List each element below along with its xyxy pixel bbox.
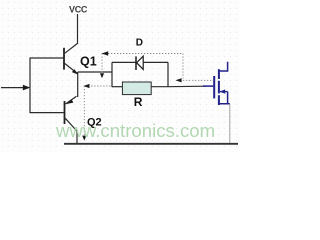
wire VCC supply lead [77, 14, 79, 44]
mosfet gate lead [203, 85, 213, 87]
wire diode branch left [112, 61, 136, 63]
wire resistor branch right [151, 86, 168, 88]
transistor Q1 collector lead [65, 43, 78, 53]
diode D triangle [137, 56, 144, 69]
transistor Q1 emitter lead with arrow [65, 64, 79, 75]
transistor Q2 base bar [64, 101, 66, 124]
dashed annotation gate horizontal with left arrow [175, 78, 213, 82]
wire Q1 base [30, 57, 63, 59]
transistor Q2 emitter lead with arrow [66, 96, 77, 104]
wire gate output [168, 85, 206, 88]
mosfet gate plate [213, 76, 215, 98]
wire resistor branch left [112, 86, 123, 88]
svg-text:VCC: VCC [69, 4, 88, 14]
dashed annotation path A top horizontal with left arrow [102, 51, 183, 55]
mosfet source lead [219, 92, 230, 104]
transistor Q1 base bar [63, 48, 65, 70]
wire input bus vertical [29, 58, 31, 114]
mosfet drain lead [219, 62, 228, 71]
node output vertical (emitters junction) [77, 72, 79, 97]
wire network left vertical [111, 62, 113, 87]
svg-text:D: D [136, 37, 143, 48]
dashed annotation path A right vertical [182, 54, 184, 79]
wire Q2 base [30, 112, 64, 114]
diode D cathode bar [135, 56, 137, 70]
svg-text:Q1: Q1 [80, 54, 97, 68]
svg-text:R: R [134, 95, 143, 109]
wire source down [229, 104, 231, 144]
resistor R body [122, 82, 151, 95]
mosfet body arrow [220, 89, 228, 93]
transistor Q2 collector lead [65, 118, 77, 143]
svg-text:www.cntronics.com: www.cntronics.com [55, 120, 215, 141]
dashed annotation path B horizontal with left arrow [83, 84, 111, 88]
dashed annotation path B vertical with down arrow [82, 86, 86, 141]
wire network right vertical [167, 62, 169, 86]
wire diode branch right [143, 61, 168, 63]
wire input with arrow [1, 85, 30, 91]
dashed annotation path A vertical with down arrow [100, 54, 104, 79]
wire bottom rail [64, 143, 238, 145]
mosfet channel segments [218, 69, 220, 105]
wire output node to network [78, 71, 112, 73]
